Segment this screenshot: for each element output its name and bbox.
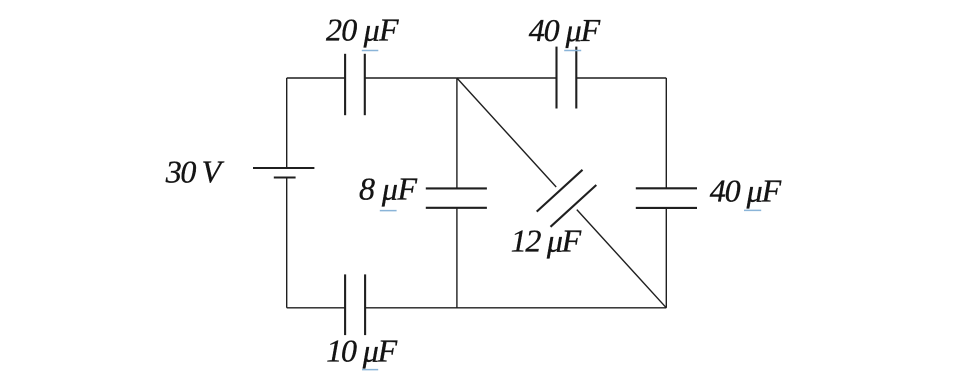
spellcheck underline under u of 10 uF [362,369,378,371]
wire: left vertical lower segment [286,178,288,308]
battery V1 short plate [274,176,296,178]
wire: right vertical lower segment [665,208,667,308]
wire: middle vertical lower segment [456,208,458,308]
svg-text:30 V: 30 V [165,153,225,189]
capacitor C4 8uF bottom plate [426,207,487,209]
wire: middle vertical upper segment [456,78,458,188]
wire: top-right horizontal segment [576,77,666,79]
wire: top horizontal segment between node A and C2 [457,77,557,79]
svg-text:20 μF: 20 μF [326,12,399,48]
spellcheck underline under u of 8 uF [380,210,397,212]
wire: bottom horizontal segment from C3 to bottom-right corner [365,307,666,309]
wire: diagonal lower segment from C6 to bottom-right corner [577,210,667,308]
capacitor C6 12uF upper plate [537,170,583,212]
spellcheck underline under u of 40 uF top [564,50,581,52]
capacitor C2 40uF right plate [575,47,577,109]
wire: right vertical upper segment [665,78,667,188]
capacitor C1 20uF right plate [364,54,366,115]
wire: diagonal upper segment from node A toward C6 [457,78,556,187]
capacitor C6 12uF lower plate [551,185,597,227]
svg-text:40 μF: 40 μF [529,12,601,48]
svg-text:40 μF: 40 μF [710,173,782,209]
capacitor C5 40uF bottom plate [636,207,697,209]
wire: top-left horizontal segment [287,77,345,79]
svg-text:8 μF: 8 μF [359,171,417,207]
wire: top horizontal segment between C1 and node A [365,77,457,79]
capacitor C3 10uF right plate [364,274,366,335]
capacitor C4 8uF top plate [426,187,487,189]
svg-text:10 μF: 10 μF [326,333,397,369]
capacitor C1 20uF left plate [344,54,346,115]
battery V1 long plate [253,167,314,169]
spellcheck underline under u of 40 uF right [744,209,761,211]
svg-text:12 μF: 12 μF [511,222,582,258]
capacitor C2 40uF left plate [555,47,557,109]
capacitor C3 10uF left plate [344,274,346,335]
wire: bottom-left horizontal segment [287,307,345,309]
wire: left vertical upper segment [286,78,288,168]
spellcheck underline under u of 20 uF [362,50,379,52]
capacitor C5 40uF top plate [636,187,697,189]
